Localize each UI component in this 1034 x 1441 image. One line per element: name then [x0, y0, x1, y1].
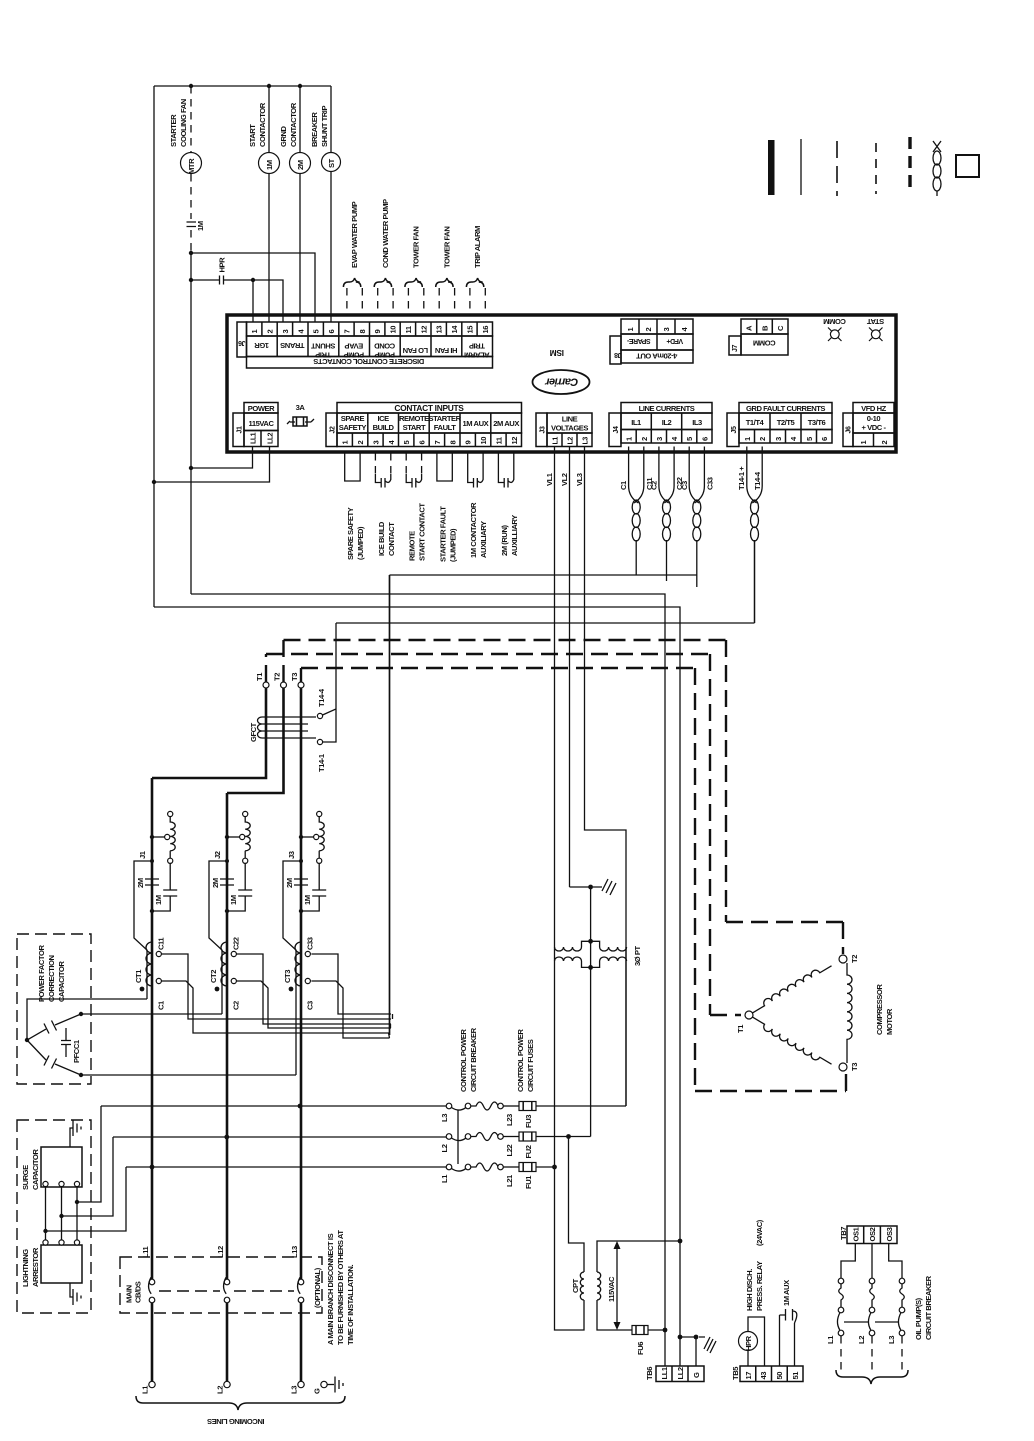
svg-text:L2: L2 [568, 437, 575, 445]
svg-text:9: 9 [373, 330, 382, 334]
svg-text:10: 10 [479, 437, 488, 445]
svg-text:FU3: FU3 [524, 1115, 533, 1128]
svg-text:CPT: CPT [571, 1278, 580, 1293]
svg-text:T1: T1 [736, 1024, 745, 1033]
svg-text:PUMP: PUMP [344, 351, 365, 360]
svg-text:OS3: OS3 [885, 1227, 894, 1241]
svg-text:2: 2 [644, 328, 653, 332]
terminal block TB6 [645, 1330, 716, 1382]
terminal block TB7 [839, 1226, 897, 1244]
svg-text:ALARM: ALARM [464, 351, 489, 360]
svg-text:REMOTE: REMOTE [399, 414, 429, 423]
svg-text:ST: ST [327, 158, 336, 168]
svg-text:TRANS: TRANS [280, 341, 304, 350]
wire PFCC phase2 [81, 1013, 222, 1015]
svg-text:(JUMPED): (JUMPED) [448, 528, 457, 562]
svg-text:10: 10 [389, 326, 398, 334]
svg-text:LIGHTNING: LIGHTNING [21, 1249, 30, 1287]
svg-text:L23: L23 [505, 1114, 514, 1126]
svg-text:LINE: LINE [562, 415, 578, 424]
svg-text:CONTACTOR: CONTACTOR [289, 102, 298, 147]
svg-text:3: 3 [371, 441, 380, 445]
connector J4 line currents [609, 403, 712, 447]
wire bus T14 [336, 622, 755, 624]
wire surge taps [77, 1106, 101, 1202]
svg-text:2M (RUN): 2M (RUN) [500, 525, 509, 556]
connector J1 power 115VAC [233, 403, 278, 447]
svg-text:C2: C2 [232, 1001, 241, 1010]
svg-text:C33: C33 [306, 937, 315, 950]
svg-text:GFCT: GFCT [249, 722, 258, 742]
svg-text:OS1: OS1 [852, 1226, 861, 1241]
svg-text:TRIP ALARM: TRIP ALARM [473, 226, 482, 268]
legend twisted pair [933, 141, 941, 196]
svg-text:9: 9 [464, 441, 473, 445]
svg-text:11: 11 [404, 325, 413, 333]
svg-text:TRIP: TRIP [469, 342, 485, 351]
wire bus LL1 [191, 594, 665, 1330]
coil ST breaker shunt trip [310, 86, 341, 322]
wire MTR branch lower / LL1 riser [190, 253, 192, 594]
transformer CT1 [134, 937, 166, 1010]
breaker control power L3 row [440, 1102, 626, 1129]
svg-text:3: 3 [655, 437, 664, 441]
wire C1 tap [161, 981, 389, 1033]
field wires tower fan (pins 11-12) [405, 227, 424, 316]
svg-text:START CONTACT: START CONTACT [418, 503, 427, 561]
wire incoming L3 [300, 1303, 303, 1381]
svg-text:J1: J1 [138, 850, 147, 859]
svg-text:16: 16 [481, 326, 490, 334]
transformer CPT [571, 1272, 601, 1300]
transformer CT3 [283, 937, 315, 1010]
svg-text:7: 7 [433, 441, 442, 445]
transformer GFCT [249, 717, 316, 742]
wire incoming L2 [226, 1303, 229, 1381]
svg-text:LL2: LL2 [676, 1367, 685, 1379]
wire TB7 to breaker [841, 1244, 855, 1279]
svg-text:LL2: LL2 [268, 432, 275, 444]
svg-text:4-20mA OUT: 4-20mA OUT [636, 352, 678, 361]
wire breaker mechanical tie [457, 1110, 459, 1164]
svg-text:LO FAN: LO FAN [403, 346, 428, 355]
svg-text:115VAC: 115VAC [248, 419, 274, 428]
svg-text:L11: L11 [141, 1245, 150, 1258]
svg-text:1M AUX: 1M AUX [463, 419, 489, 428]
svg-text:SPARE SAFETY: SPARE SAFETY [346, 507, 355, 560]
svg-text:3Ø PT: 3Ø PT [633, 945, 642, 966]
svg-text:J4: J4 [613, 426, 620, 433]
svg-text:ISM: ISM [550, 348, 564, 358]
switch L13 [290, 1246, 304, 1303]
svg-text:STAT: STAT [867, 317, 885, 326]
contactor coil 1M start contactor [248, 86, 280, 322]
svg-text:J1: J1 [237, 426, 244, 433]
wire T3 down (phase 3) [300, 688, 303, 1279]
svg-text:G: G [313, 1388, 322, 1394]
wire MTR dashed branch [190, 86, 192, 152]
wire bus C1 [390, 574, 698, 576]
wire PFCC phase3 [81, 1074, 296, 1076]
svg-text:CT1: CT1 [134, 969, 143, 983]
wire PT left lead down [555, 947, 627, 1167]
svg-text:Carrier: Carrier [544, 376, 578, 388]
svg-text:C3: C3 [680, 481, 689, 490]
svg-text:L2: L2 [216, 1386, 225, 1394]
svg-text:50: 50 [775, 1372, 784, 1380]
svg-text:L13: L13 [290, 1246, 299, 1258]
wire T1 feeder dashed [266, 654, 710, 682]
svg-text:2M: 2M [211, 878, 220, 888]
svg-text:L22: L22 [505, 1145, 514, 1157]
wire phase 1 main [151, 778, 154, 1279]
fuse 3A [287, 403, 314, 426]
wire switch tie dashed [159, 1290, 294, 1292]
wire LL2 drop to ISM [154, 447, 270, 483]
svg-text:0-10: 0-10 [867, 414, 881, 423]
wire LL2 left riser [153, 86, 155, 607]
svg-text:14: 14 [450, 325, 459, 334]
svg-text:C1: C1 [157, 1000, 166, 1010]
svg-text:T1/T4: T1/T4 [746, 418, 765, 427]
svg-text:GRD FAULT CURRENTS: GRD FAULT CURRENTS [746, 404, 825, 413]
node pin1 tap on HPR wire [251, 278, 255, 282]
connector J7 comm [729, 319, 788, 355]
svg-text:2: 2 [640, 437, 649, 441]
svg-text:SPARE: SPARE [341, 414, 365, 423]
terminal block TB5 [731, 1366, 803, 1382]
logo Carrier [533, 370, 590, 394]
brace oil pump [836, 1370, 908, 1384]
svg-text:COMM: COMM [753, 339, 775, 348]
enclosure main disconnect [120, 1257, 322, 1313]
svg-text:AUXILLIARY: AUXILLIARY [510, 515, 519, 556]
svg-text:2M: 2M [285, 878, 294, 888]
svg-text:CAPACITOR: CAPACITOR [31, 1149, 40, 1190]
svg-text:VL2: VL2 [560, 473, 569, 486]
switch L11 [141, 1245, 155, 1302]
capacitor HPR [191, 257, 283, 322]
svg-text:CT2: CT2 [209, 970, 218, 983]
svg-text:T3: T3 [850, 1063, 859, 1071]
svg-text:51: 51 [791, 1371, 800, 1380]
svg-text:C33: C33 [705, 477, 714, 490]
transformer 3-phase PT [555, 939, 643, 970]
field wires cond water pump (pins 9-10) [374, 199, 393, 316]
switch L12 [216, 1246, 230, 1303]
svg-text:CONTACT INPUTS: CONTACT INPUTS [394, 403, 464, 413]
svg-text:TRIP: TRIP [315, 351, 331, 360]
svg-text:OIL PUMP(S): OIL PUMP(S) [914, 1297, 923, 1340]
svg-text:L1: L1 [826, 1335, 835, 1344]
wire T1 down to phase 1 [152, 688, 266, 778]
wire PT right lead down [625, 961, 627, 1106]
wire VL2 [569, 447, 571, 888]
svg-text:1M CONTACTOR: 1M CONTACTOR [469, 502, 478, 558]
svg-text:MOTOR: MOTOR [885, 1008, 894, 1035]
wire T2 feeder dashed [284, 640, 727, 682]
svg-text:SAFETY: SAFETY [339, 423, 367, 432]
motor compressor delta winding [736, 955, 894, 1071]
breaker oil pump column [898, 1278, 904, 1371]
svg-text:1M: 1M [229, 895, 238, 905]
contact 2M auxiliary (pins 11-12) [498, 453, 519, 556]
svg-text:43: 43 [759, 1372, 768, 1380]
svg-text:PRESS. RELAY: PRESS. RELAY [755, 1261, 764, 1311]
svg-text:8: 8 [448, 441, 457, 445]
svg-text:SHUNT TRIP: SHUNT TRIP [320, 106, 329, 147]
svg-text:VOLTAGES: VOLTAGES [551, 424, 588, 433]
svg-text:CAPACITOR: CAPACITOR [57, 961, 66, 1002]
wire pin5 branch [191, 253, 315, 322]
svg-text:T14-4: T14-4 [317, 688, 326, 707]
wire C22 tap [236, 954, 391, 1024]
svg-text:L2: L2 [440, 1144, 449, 1152]
svg-text:17: 17 [744, 1372, 753, 1380]
svg-text:6: 6 [820, 437, 829, 441]
node T14-4 [317, 688, 326, 718]
lightning arrestor LA [21, 1202, 82, 1305]
twisted pair T14-1/T14-4 [737, 447, 762, 624]
twisted pair C2/C22 [649, 447, 684, 582]
svg-text:TB6: TB6 [645, 1367, 654, 1380]
arrow 115VAC [607, 1241, 621, 1330]
svg-text:J2: J2 [330, 426, 337, 433]
svg-text:HI FAN: HI FAN [435, 346, 457, 355]
breaker control power L2 row [440, 1132, 591, 1159]
wire LL1 drop to ISM [191, 447, 253, 469]
svg-text:2M: 2M [296, 160, 305, 170]
svg-text:POWER: POWER [248, 404, 275, 413]
svg-text:L1: L1 [141, 1385, 150, 1394]
wire CPT secondary bottom + fuse FU6 [597, 1300, 632, 1330]
svg-text:8: 8 [358, 330, 367, 334]
brace incoming lines [136, 1396, 345, 1410]
node on MTR branch [189, 251, 193, 255]
svg-text:EVAP WATER PUMP: EVAP WATER PUMP [350, 201, 359, 268]
jumper spare safety (pins 1-2) [345, 453, 366, 560]
svg-text:CB/DS: CB/DS [134, 1281, 143, 1303]
node T2 [273, 673, 287, 688]
lamp COMM [824, 317, 846, 341]
wire C11 tap [161, 954, 391, 1019]
breaker control power L1 row [440, 1163, 555, 1190]
svg-text:IL3: IL3 [692, 418, 702, 427]
connector J1 branch [134, 811, 177, 999]
svg-text:PUMP: PUMP [374, 351, 395, 360]
svg-text:C22: C22 [232, 937, 241, 950]
connector J3 branch [283, 811, 326, 1075]
junction bundle merge [389, 1014, 393, 1038]
motor MTR starter cooling fan [169, 99, 202, 174]
svg-text:L3: L3 [887, 1336, 896, 1344]
svg-text:EVAP: EVAP [345, 342, 364, 351]
svg-text:6: 6 [700, 437, 709, 441]
connector J8 4-20ma out [610, 319, 693, 364]
svg-text:L12: L12 [216, 1246, 225, 1258]
svg-text:FU2: FU2 [524, 1145, 533, 1158]
twisted pair C1/C11 [619, 447, 654, 576]
svg-text:START: START [403, 423, 426, 432]
svg-text:HPR: HPR [218, 257, 227, 273]
wire phase 2 main [226, 793, 229, 1279]
svg-text:BREAKER: BREAKER [310, 112, 319, 147]
svg-text:STARTER: STARTER [169, 114, 178, 147]
svg-text:GRND: GRND [279, 125, 288, 147]
wire oil pump tie [844, 1321, 899, 1323]
svg-text:J6: J6 [238, 339, 245, 346]
wire pin1 drop [252, 280, 254, 322]
svg-text:1M: 1M [303, 895, 312, 905]
contact remote start (pins 5-6) [406, 453, 427, 561]
svg-text:115VAC: 115VAC [607, 1276, 616, 1302]
svg-text:T1: T1 [255, 672, 264, 681]
note main branch disconnect [326, 1230, 355, 1345]
field wires evap water pump (pins 7-8) [343, 201, 362, 316]
enclosure power factor correction capacitor [17, 934, 91, 1084]
svg-text:TB5: TB5 [731, 1366, 740, 1380]
breaker oil pump column [868, 1278, 874, 1371]
svg-text:C1: C1 [619, 480, 628, 490]
svg-text:2: 2 [356, 441, 365, 445]
controller ISM outline [227, 315, 896, 452]
svg-text:ICE: ICE [377, 414, 389, 423]
contact ice build (pins 3-4) [375, 453, 396, 556]
svg-text:COMM: COMM [824, 317, 846, 326]
svg-text:CONTROL POWER: CONTROL POWER [516, 1029, 525, 1092]
legend heavy dash [908, 137, 911, 194]
contact 1M AUX (24vac) [780, 1280, 797, 1366]
wire PT center / ground tap [570, 887, 591, 967]
svg-text:COOLING FAN: COOLING FAN [179, 99, 188, 147]
contact 1M (fan) [187, 221, 206, 231]
svg-text:CIRCUIT FUSES: CIRCUIT FUSES [526, 1039, 535, 1092]
svg-text:3: 3 [774, 437, 783, 441]
svg-text:A MAIN BRANCH DISCONNECT IS: A MAIN BRANCH DISCONNECT IS [326, 1233, 335, 1345]
svg-text:L3: L3 [583, 437, 590, 445]
wire T14 riser [323, 623, 337, 742]
svg-text:FAULT: FAULT [434, 423, 456, 432]
svg-text:2: 2 [266, 330, 275, 334]
svg-text:(OPTIONAL): (OPTIONAL) [313, 1267, 322, 1308]
svg-text:12: 12 [510, 437, 519, 445]
svg-text:C2: C2 [649, 481, 658, 490]
wire C3 tap [311, 981, 389, 1038]
svg-text:T3/T6: T3/T6 [808, 418, 826, 427]
legend medium dash [875, 143, 877, 194]
field wires trip alarm (pins 15-16) [466, 226, 485, 316]
svg-text:2M: 2M [136, 878, 145, 888]
svg-text:6: 6 [327, 330, 336, 334]
svg-text:LINE CURRENTS: LINE CURRENTS [639, 404, 695, 413]
relay HPR [739, 1317, 765, 1366]
svg-text:L3: L3 [440, 1114, 449, 1122]
svg-text:COND WATER PUMP: COND WATER PUMP [381, 199, 390, 268]
contact 1M auxiliary (pins 9-10) [468, 453, 489, 558]
svg-text:STARTER FAULT: STARTER FAULT [438, 506, 447, 562]
svg-text:T14-1: T14-1 [317, 753, 326, 772]
node T14-1 [317, 739, 326, 772]
svg-text:MAIN: MAIN [125, 1285, 134, 1303]
svg-text:T2: T2 [850, 955, 859, 963]
svg-text:MTR: MTR [187, 158, 196, 174]
contactor coil 2M ground contactor [279, 86, 311, 322]
svg-text:COND: COND [374, 342, 396, 351]
jumper starter fault (pins 7-8) [437, 453, 458, 562]
wire bus LL2 [154, 607, 680, 1366]
svg-text:6: 6 [418, 441, 427, 445]
svg-text:SHUNT: SHUNT [311, 342, 336, 351]
svg-text:IL2: IL2 [662, 418, 672, 427]
svg-text:1M: 1M [265, 160, 274, 170]
connector J5 grd fault currents [727, 403, 832, 447]
svg-text:IL1: IL1 [631, 418, 642, 427]
wire PFCC phase1 [27, 999, 147, 1040]
svg-text:TOWER FAN: TOWER FAN [412, 227, 421, 268]
wire C33 tap [311, 954, 391, 1014]
svg-text:ARRESTOR: ARRESTOR [31, 1247, 40, 1287]
field wires tower fan (pins 13-14) [436, 227, 455, 316]
svg-text:CORRECTION: CORRECTION [47, 955, 56, 1002]
svg-text:CONTROL POWER: CONTROL POWER [459, 1029, 468, 1092]
svg-text:START: START [248, 124, 257, 147]
svg-text:(24VAC): (24VAC) [755, 1219, 764, 1246]
svg-text:3: 3 [662, 328, 671, 332]
wire tap feeders to control power [101, 1105, 449, 1107]
svg-text:CT3: CT3 [283, 970, 292, 983]
wire incoming L1 [151, 1303, 154, 1381]
connector J2 branch [209, 811, 252, 1014]
svg-text:ICE BUILD: ICE BUILD [377, 521, 386, 556]
svg-text:J2: J2 [213, 851, 222, 859]
svg-text:FU1: FU1 [524, 1175, 533, 1189]
svg-text:7: 7 [342, 330, 351, 334]
wire VL3 [585, 447, 627, 1107]
wire 115VAC top rail [154, 84, 331, 88]
svg-text:SPARE-: SPARE- [626, 337, 650, 344]
svg-text:COMPRESSOR: COMPRESSOR [875, 984, 884, 1035]
svg-text:INCOMING LINES: INCOMING LINES [207, 1417, 264, 1426]
svg-text:1M: 1M [154, 895, 163, 905]
wire T2 down to phase 2 [227, 688, 284, 793]
svg-text:OS2: OS2 [868, 1227, 877, 1241]
svg-text:2M AUX: 2M AUX [493, 419, 519, 428]
legend thick bar [768, 140, 775, 195]
legend thin line [800, 139, 802, 195]
connector J2 contact inputs [326, 403, 522, 447]
svg-text:13: 13 [435, 326, 444, 334]
connector J3 line voltages [536, 413, 592, 447]
svg-text:T2: T2 [273, 673, 282, 681]
breaker oil pump column [837, 1278, 843, 1371]
svg-text:HPR: HPR [744, 1335, 753, 1351]
connector J6 discrete control contacts [237, 322, 493, 368]
svg-text:AUXILIARY: AUXILIARY [479, 521, 488, 558]
svg-text:HIGH DISCH.: HIGH DISCH. [745, 1269, 754, 1311]
svg-text:3: 3 [281, 330, 290, 334]
svg-text:FU6: FU6 [636, 1342, 645, 1355]
svg-text:2: 2 [758, 437, 767, 441]
svg-text:T2/T5: T2/T5 [777, 418, 796, 427]
legend square [956, 155, 979, 177]
svg-text:L1: L1 [440, 1174, 449, 1183]
svg-text:L2: L2 [857, 1336, 866, 1344]
svg-text:CONTACT: CONTACT [387, 522, 396, 556]
svg-text:J5: J5 [731, 426, 738, 433]
svg-text:2: 2 [880, 441, 889, 445]
svg-text:1GR: 1GR [254, 341, 269, 350]
svg-text:TOWER FAN: TOWER FAN [442, 227, 451, 268]
